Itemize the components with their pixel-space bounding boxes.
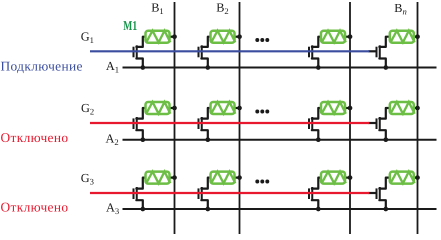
- wire: drain of row3 col2 to memristor: [201, 178, 211, 189]
- svg-text:G3: G3: [81, 171, 94, 187]
- wire: drain of row2 col1 to memristor: [136, 108, 146, 119]
- wire: source of row2 col4 down to A line: [379, 130, 385, 140]
- wire: memristor row1 col4 to bit line: [414, 36, 418, 38]
- junction node: memristor row3 col4 on bit line: [415, 175, 420, 180]
- transistor row3 col2: [199, 187, 202, 200]
- wire: memristor row3 col1 to bit line: [170, 177, 175, 179]
- gate lead wire (transistor row2 col4): [368, 122, 376, 124]
- junction node: source of row1 col3 on A line: [316, 65, 321, 70]
- wire: drain of row2 col3 to memristor: [312, 108, 322, 119]
- svg-text:M1: M1: [123, 18, 137, 33]
- junction node: source of row3 col3 on A line: [316, 207, 321, 212]
- junction node: memristor row1 col3 on bit line: [348, 34, 353, 39]
- wire: memristor row1 col1 to bit line: [170, 36, 175, 38]
- transistor row3 col4: [377, 187, 380, 200]
- wire: source of row3 col3 down to A line: [312, 200, 318, 209]
- wire: memristor row3 col3 to bit line: [345, 177, 350, 179]
- ellipsis (continuation dots) row 3: [255, 180, 269, 184]
- transistor row1 col2: [199, 45, 202, 58]
- svg-text:G2: G2: [81, 101, 94, 117]
- memristor row1 col2: [211, 31, 236, 43]
- junction node: source of row1 col2 on A line: [205, 65, 210, 70]
- bit line Bn (vertical wire): [417, 2, 419, 234]
- wire: memristor row2 col2 to bit line: [235, 107, 240, 109]
- bit line B3 (vertical wire): [349, 2, 351, 234]
- memristor row1 col4: [390, 31, 415, 43]
- svg-text:Подключение: Подключение: [1, 58, 83, 73]
- wire: memristor row3 col2 to bit line: [235, 177, 240, 179]
- bit line B2 (vertical wire): [239, 2, 241, 234]
- wire: memristor row1 col2 to bit line: [235, 36, 240, 38]
- wire: source of row3 col4 down to A line: [379, 200, 385, 209]
- wire: source of row1 col4 down to A line: [379, 59, 385, 68]
- svg-text:Bn: Bn: [394, 1, 407, 17]
- junction node: memristor row3 col1 on bit line: [172, 175, 177, 180]
- gate line G1 (horizontal wire): [90, 50, 369, 52]
- junction node: source of row2 col4 on A line: [383, 137, 388, 142]
- wire: drain of row2 col4 to memristor: [379, 108, 390, 119]
- junction node: source of row1 col1 on A line: [140, 65, 145, 70]
- wire: drain of row1 col4 to memristor: [379, 37, 390, 47]
- wire: source of row3 col1 down to A line: [136, 200, 142, 209]
- wire: memristor row2 col1 to bit line: [170, 107, 175, 109]
- memristor row2 col1: [146, 102, 171, 114]
- junction node: memristor row2 col4 on bit line: [415, 106, 420, 111]
- junction node: source of row2 col1 on A line: [140, 137, 145, 142]
- junction node: memristor row3 col2 on bit line: [237, 175, 242, 180]
- svg-text:Отключено: Отключено: [1, 130, 69, 145]
- junction node: source of row3 col1 on A line: [140, 207, 145, 212]
- svg-text:Отключено: Отключено: [1, 200, 69, 215]
- bit line B1 (vertical wire): [174, 2, 176, 234]
- wire: source of row1 col2 down to A line: [201, 59, 207, 68]
- transistor row2 col4: [377, 117, 380, 130]
- transistor row2 col1: [134, 117, 137, 130]
- memristor row3 col1: [146, 172, 171, 184]
- wire: source of row3 col2 down to A line: [201, 200, 207, 209]
- junction node: memristor row1 col2 on bit line: [237, 34, 242, 39]
- word line A2 (horizontal wire): [123, 139, 437, 141]
- wire: drain of row1 col3 to memristor: [312, 37, 322, 47]
- wire: memristor row1 col3 to bit line: [345, 36, 350, 38]
- transistor row2 col2: [199, 117, 202, 130]
- wire: drain of row1 col2 to memristor: [201, 37, 211, 47]
- memristor row2 col2: [211, 102, 236, 114]
- wire: drain of row3 col1 to memristor: [136, 178, 146, 189]
- transistor row3 col3: [309, 187, 312, 200]
- wire: memristor row2 col3 to bit line: [345, 107, 350, 109]
- word line A3 (horizontal wire): [123, 208, 437, 210]
- junction node: source of row3 col4 on A line: [383, 207, 388, 212]
- transistor row1 col3: [309, 45, 312, 58]
- wire: source of row1 col3 down to A line: [312, 59, 318, 68]
- gate line G2 (horizontal wire): [90, 122, 369, 124]
- transistor row3 col1: [134, 187, 137, 200]
- svg-text:A1: A1: [106, 59, 119, 75]
- memristor row2 col4: [390, 102, 415, 114]
- svg-text:B2: B2: [216, 0, 229, 16]
- wire: source of row2 col3 down to A line: [312, 130, 318, 140]
- wire: drain of row3 col3 to memristor: [312, 178, 322, 189]
- wire: source of row2 col1 down to A line: [136, 130, 142, 140]
- junction node: memristor row1 col4 on bit line: [415, 34, 420, 39]
- memristor row3 col2: [211, 172, 236, 184]
- junction node: source of row1 col4 on A line: [383, 65, 388, 70]
- ellipsis (continuation dots) row 2: [255, 110, 269, 114]
- memristor row2 col3: [321, 102, 346, 114]
- ellipsis (continuation dots) row 1: [255, 38, 269, 42]
- wire: drain of row2 col2 to memristor: [201, 108, 211, 119]
- memristor row3 col4: [390, 172, 415, 184]
- wire: memristor row3 col4 to bit line: [414, 177, 418, 179]
- junction node: source of row2 col2 on A line: [205, 137, 210, 142]
- junction node: memristor row2 col1 on bit line: [172, 106, 177, 111]
- wire: source of row2 col2 down to A line: [201, 130, 207, 140]
- svg-text:A3: A3: [106, 201, 119, 217]
- memristor row1 col1: [146, 31, 171, 43]
- gate line G3 (horizontal wire): [90, 192, 369, 194]
- wire: drain of row1 col1 to memristor: [136, 37, 146, 47]
- junction node: memristor row2 col3 on bit line: [348, 106, 353, 111]
- transistor row1 col4: [377, 45, 380, 58]
- junction node: source of row3 col2 on A line: [205, 207, 210, 212]
- gate lead wire (transistor row3 col4): [368, 192, 376, 194]
- transistor row1 col1: [134, 45, 137, 58]
- svg-text:A2: A2: [106, 131, 119, 147]
- junction node: memristor row1 col1 on bit line: [172, 34, 177, 39]
- junction node: memristor row3 col3 on bit line: [348, 175, 353, 180]
- word line A1 (horizontal wire): [123, 67, 437, 69]
- wire: memristor row2 col4 to bit line: [414, 107, 418, 109]
- wire: drain of row3 col4 to memristor: [379, 178, 390, 189]
- memristor row3 col3: [321, 172, 346, 184]
- svg-text:G1: G1: [81, 30, 94, 46]
- svg-text:B1: B1: [151, 0, 164, 16]
- junction node: memristor row2 col2 on bit line: [237, 106, 242, 111]
- junction node: source of row2 col3 on A line: [316, 137, 321, 142]
- memristor row1 col3: [321, 31, 346, 43]
- wire: source of row1 col1 down to A line: [136, 59, 142, 68]
- transistor row2 col3: [309, 117, 312, 130]
- gate lead wire (transistor row1 col4): [368, 50, 376, 52]
